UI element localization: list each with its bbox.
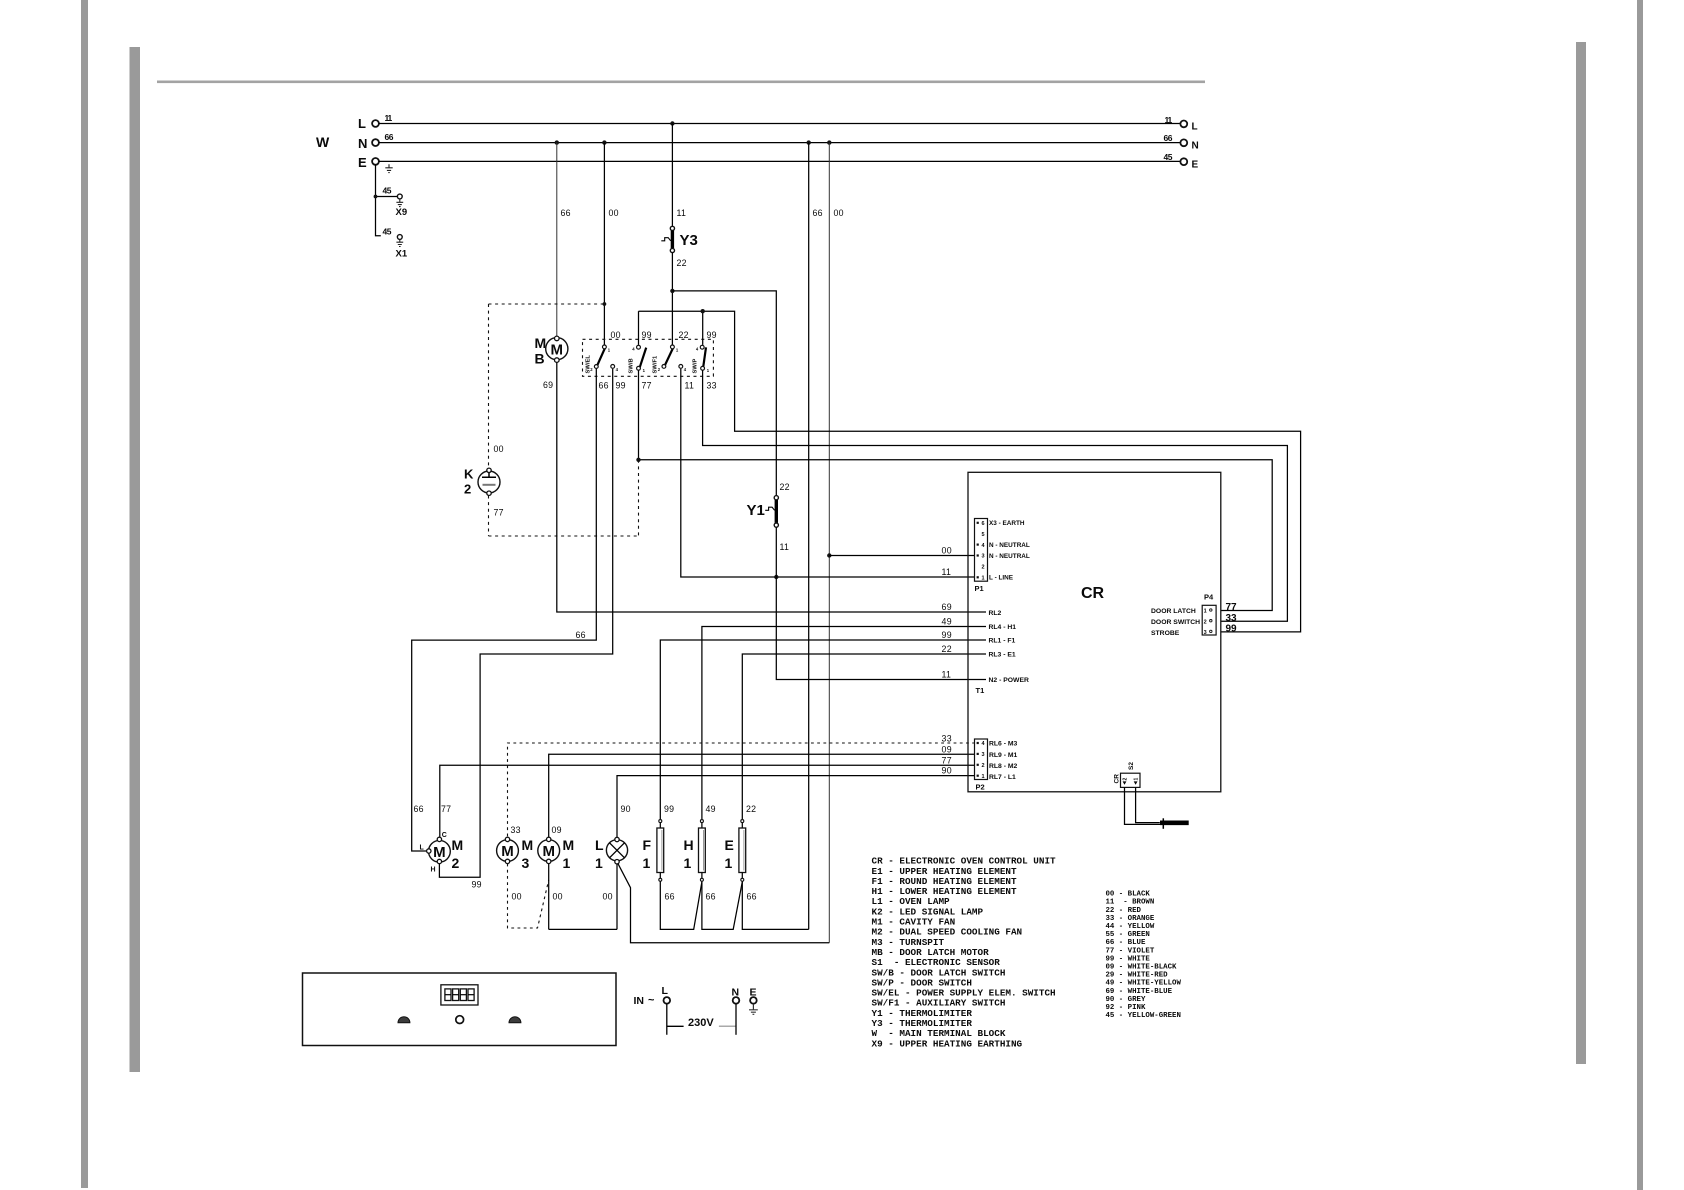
svg-text:M: M bbox=[433, 844, 446, 861]
svg-text:45 - YELLOW-GREEN: 45 - YELLOW-GREEN bbox=[1106, 1012, 1181, 1020]
svg-text:2: 2 bbox=[452, 855, 460, 871]
svg-text:H: H bbox=[431, 867, 436, 874]
svg-text:1: 1 bbox=[725, 855, 733, 871]
svg-text:49 - WHITE-YELLOW: 49 - WHITE-YELLOW bbox=[1106, 980, 1182, 988]
svg-text:69: 69 bbox=[942, 602, 952, 612]
right terminal N circle bbox=[1180, 139, 1187, 146]
svg-text:00: 00 bbox=[603, 892, 613, 902]
svg-text:M: M bbox=[452, 837, 464, 853]
mains gray link bbox=[719, 1025, 736, 1027]
svg-text:N: N bbox=[1192, 141, 1199, 152]
thermolimiter Y1 bbox=[774, 496, 778, 500]
thermolimiter Y3 bbox=[670, 226, 674, 230]
right terminal E circle bbox=[1180, 158, 1187, 165]
control panel box bbox=[303, 973, 617, 1046]
svg-text:00: 00 bbox=[609, 208, 619, 218]
svg-text:P2: P2 bbox=[976, 783, 985, 792]
svg-text:L: L bbox=[420, 845, 425, 852]
svg-text:3: 3 bbox=[981, 752, 984, 758]
junction N to SW/EL wire bbox=[602, 140, 606, 144]
svg-text:X9: X9 bbox=[396, 207, 408, 218]
svg-text:3: 3 bbox=[981, 554, 984, 560]
mains ground symbol bbox=[749, 1004, 758, 1015]
svg-text:11: 11 bbox=[780, 542, 790, 552]
svg-text:L: L bbox=[358, 116, 366, 131]
wire 66 from N to heating elements return bus bbox=[808, 143, 810, 930]
svg-text:M: M bbox=[551, 341, 564, 358]
svg-text:99 - WHITE: 99 - WHITE bbox=[1106, 955, 1151, 963]
svg-text:1: 1 bbox=[981, 576, 984, 582]
svg-text:CR: CR bbox=[1114, 774, 1121, 784]
door latch motor MB bbox=[546, 336, 568, 362]
wire E earthing drop to X9 and X1 bbox=[376, 165, 398, 236]
svg-text:49: 49 bbox=[706, 804, 716, 814]
svg-text:66: 66 bbox=[1164, 133, 1173, 143]
svg-text:66: 66 bbox=[747, 892, 757, 902]
svg-text:E: E bbox=[725, 837, 734, 853]
cooling fan M2 bbox=[427, 837, 451, 864]
svg-text:66: 66 bbox=[706, 892, 716, 902]
svg-text:33: 33 bbox=[942, 734, 952, 744]
svg-text:3: 3 bbox=[522, 855, 530, 871]
switch SW/F1 bbox=[662, 345, 683, 368]
svg-text:K: K bbox=[464, 467, 474, 482]
svg-text:45: 45 bbox=[383, 227, 392, 237]
display digits 8888 bbox=[445, 989, 451, 1001]
svg-text:SW/F1: SW/F1 bbox=[653, 355, 659, 373]
svg-text:230V: 230V bbox=[688, 1017, 714, 1029]
wire bus N bbox=[379, 142, 1180, 144]
svg-text:77: 77 bbox=[494, 508, 504, 518]
svg-text:IN: IN bbox=[634, 995, 645, 1007]
legend colour codes bbox=[1106, 891, 1182, 1021]
svg-text:99: 99 bbox=[664, 804, 674, 814]
svg-text:09 - WHITE-BLACK: 09 - WHITE-BLACK bbox=[1106, 964, 1178, 972]
svg-text:99: 99 bbox=[616, 381, 626, 391]
junction L to Y3 wire bbox=[670, 121, 674, 125]
terminal W pin L circle bbox=[372, 120, 379, 127]
svg-text:92 - PINK: 92 - PINK bbox=[1106, 1004, 1146, 1012]
svg-text:66: 66 bbox=[385, 132, 394, 142]
round heating element F1 bbox=[657, 820, 664, 882]
wires from S2 to sensor S1 bbox=[1125, 787, 1161, 824]
svg-text:44 - YELLOW: 44 - YELLOW bbox=[1106, 923, 1155, 931]
svg-text:11: 11 bbox=[685, 381, 695, 391]
switch SW/EL bbox=[594, 345, 614, 368]
wire 09 from CR P2 RL9 to cavity fan M1 bbox=[549, 754, 975, 837]
wire 99 from SW/EL to cooling fan M2 terminal H bbox=[439, 369, 612, 878]
svg-text:49: 49 bbox=[942, 617, 952, 627]
svg-text:1: 1 bbox=[1134, 778, 1140, 781]
wire 99 above SW/P bbox=[702, 311, 704, 345]
dashed wire 00 below turnspit M3 bbox=[508, 864, 549, 928]
svg-text:11 - BROWN: 11 - BROWN bbox=[1106, 899, 1155, 907]
svg-text:77: 77 bbox=[1226, 602, 1238, 613]
wire 77 from CR P2 RL8 to cooling fan M2 terminal C bbox=[440, 765, 975, 837]
svg-text:P1: P1 bbox=[975, 584, 984, 593]
svg-text:B: B bbox=[535, 351, 545, 367]
svg-text:T1: T1 bbox=[976, 686, 985, 695]
connector S2 of CR bbox=[1121, 773, 1141, 787]
svg-text:Y3: Y3 bbox=[680, 232, 698, 249]
svg-text:11: 11 bbox=[677, 208, 687, 218]
svg-text:00: 00 bbox=[611, 330, 621, 340]
mains terminal N circle bbox=[733, 997, 740, 1004]
svg-text:W: W bbox=[316, 134, 330, 150]
svg-text:1: 1 bbox=[981, 774, 984, 780]
right terminal L circle bbox=[1180, 121, 1187, 128]
wire 66 below E1 to feeder bbox=[742, 882, 808, 930]
svg-text:L: L bbox=[662, 985, 669, 997]
svg-text:RL9 - M1: RL9 - M1 bbox=[989, 752, 1018, 759]
display window bbox=[441, 985, 478, 1005]
svg-text:RL1 - F1: RL1 - F1 bbox=[989, 638, 1016, 645]
svg-text:66: 66 bbox=[665, 892, 675, 902]
svg-text:33: 33 bbox=[511, 825, 521, 835]
svg-text:77: 77 bbox=[441, 804, 451, 814]
wire 00 from N to switch SW/EL bbox=[603, 143, 605, 345]
mains terminal L circle bbox=[664, 997, 671, 1004]
svg-text:99: 99 bbox=[472, 880, 482, 890]
junction 22 branch to Y1 bbox=[670, 289, 674, 293]
svg-text:22: 22 bbox=[677, 258, 687, 268]
svg-text:M: M bbox=[501, 843, 514, 860]
electronic sensor S1 probe bbox=[1160, 820, 1189, 825]
top gray rule bbox=[157, 81, 1205, 84]
panel center lamp bbox=[456, 1016, 464, 1024]
svg-text:2: 2 bbox=[1123, 778, 1129, 781]
svg-text:66 - BLUE: 66 - BLUE bbox=[1106, 939, 1146, 947]
svg-text:N - NEUTRAL: N - NEUTRAL bbox=[989, 553, 1030, 560]
wire 99 strobe net to CR P4 pin3 bbox=[639, 311, 1301, 632]
svg-text:X9 - UPPER HEATING EARTHING: X9 - UPPER HEATING EARTHING bbox=[872, 1038, 1023, 1049]
svg-text:33: 33 bbox=[1226, 613, 1238, 624]
svg-text:SW/P: SW/P bbox=[693, 359, 699, 374]
junction N to wire 00b bbox=[827, 140, 831, 144]
svg-text:09: 09 bbox=[552, 825, 562, 835]
svg-text:2: 2 bbox=[1204, 619, 1207, 625]
svg-text:33: 33 bbox=[707, 381, 717, 391]
svg-text:P4: P4 bbox=[1204, 593, 1214, 602]
svg-text:22 - RED: 22 - RED bbox=[1106, 907, 1142, 915]
turnspit M3 bbox=[497, 837, 519, 863]
wire 11 from SW/F1 to CR P1 pin1 line bbox=[681, 369, 975, 577]
right outer gray bar bbox=[1637, 0, 1643, 1190]
svg-text:22: 22 bbox=[780, 482, 790, 492]
right inner gray bar bbox=[1576, 42, 1586, 1064]
svg-text:22: 22 bbox=[746, 804, 756, 814]
svg-text:M: M bbox=[535, 335, 547, 351]
svg-text:77: 77 bbox=[642, 381, 652, 391]
svg-text:6: 6 bbox=[981, 521, 984, 527]
svg-text:00: 00 bbox=[494, 444, 504, 454]
svg-text:29 - WHITE-RED: 29 - WHITE-RED bbox=[1106, 972, 1169, 980]
svg-text:00: 00 bbox=[553, 892, 563, 902]
svg-text:F: F bbox=[643, 837, 652, 853]
svg-text:66: 66 bbox=[561, 208, 571, 218]
wire bus L bbox=[379, 123, 1180, 125]
svg-text:1: 1 bbox=[1204, 609, 1207, 615]
svg-text:00 - BLACK: 00 - BLACK bbox=[1106, 891, 1151, 899]
svg-text:90: 90 bbox=[621, 804, 631, 814]
svg-text:Y1: Y1 bbox=[747, 502, 765, 519]
cavity fan M1 bbox=[538, 837, 560, 863]
svg-text:L - LINE: L - LINE bbox=[989, 575, 1014, 582]
wire 69 from MB to CR RL2 bbox=[557, 363, 986, 613]
svg-text:M: M bbox=[542, 843, 555, 860]
svg-text:69 - WHITE-BLUE: 69 - WHITE-BLUE bbox=[1106, 988, 1173, 996]
svg-text:RL6 - M3: RL6 - M3 bbox=[989, 741, 1018, 748]
junction 77 at dashed box corner bbox=[636, 458, 640, 462]
svg-text:66: 66 bbox=[813, 208, 823, 218]
wire 22 branch to thermolimiter Y1 bbox=[672, 291, 776, 496]
ground symbol at W terminal E bbox=[385, 164, 392, 172]
svg-text:22: 22 bbox=[942, 644, 952, 654]
svg-text:99: 99 bbox=[707, 330, 717, 340]
svg-text:DOOR SWITCH: DOOR SWITCH bbox=[1151, 619, 1200, 626]
svg-text:E: E bbox=[1192, 160, 1199, 171]
svg-text:CR: CR bbox=[1081, 585, 1105, 602]
svg-text:C: C bbox=[442, 832, 447, 839]
svg-text:N2 - POWER: N2 - POWER bbox=[989, 677, 1029, 684]
terminal W pin E circle bbox=[372, 158, 379, 165]
svg-text:N: N bbox=[358, 136, 367, 151]
wire 66 below H1 to E1 bbox=[702, 882, 742, 930]
wire 22 from CR RL3 to upper heating element E1 bbox=[742, 654, 986, 819]
svg-text:1: 1 bbox=[563, 855, 571, 871]
connector P2 of CR bbox=[975, 739, 988, 780]
svg-text:66: 66 bbox=[599, 381, 609, 391]
svg-text:5: 5 bbox=[981, 532, 984, 538]
junction 00 branch to P1 bbox=[827, 553, 831, 557]
junction 11 net with Y1 bbox=[774, 575, 778, 579]
connector P1 of CR bbox=[975, 519, 988, 582]
wire 49 from CR RL4 to lower heating element H1 bbox=[702, 627, 986, 820]
wire 99 from CR RL1 to round heating element F1 bbox=[660, 640, 986, 819]
svg-text:L: L bbox=[595, 837, 604, 853]
wire 77 from SW/B to CR P4 pin1 bbox=[639, 371, 1273, 611]
terminal X9 circle bbox=[397, 194, 402, 199]
wire 66 from SW/EL to cooling fan M2 terminal L bbox=[412, 369, 597, 851]
wire 00 below lamp L1 bbox=[616, 864, 618, 930]
wire 00 branch into CR P1 pin3 bbox=[829, 555, 975, 557]
svg-text:00: 00 bbox=[512, 892, 522, 902]
wire 99 above SW/B bbox=[638, 311, 640, 345]
wire 11 from Y1 to CR N2 power bbox=[776, 527, 986, 679]
mains L wire bbox=[667, 1004, 684, 1035]
ground symbol X9 bbox=[396, 199, 403, 207]
svg-text:90: 90 bbox=[942, 766, 952, 776]
svg-text:00: 00 bbox=[834, 208, 844, 218]
junction of MB box edge on wire 00 bbox=[603, 302, 607, 306]
junction N to MB wire bbox=[555, 140, 559, 144]
mains terminal E circle bbox=[750, 997, 757, 1004]
svg-text:2: 2 bbox=[464, 482, 471, 497]
wire 66 from N to door latch motor MB bbox=[556, 143, 558, 337]
svg-text:STROBE: STROBE bbox=[1151, 630, 1180, 637]
ground symbol X1 bbox=[396, 239, 403, 246]
svg-text:X3 - EARTH: X3 - EARTH bbox=[989, 520, 1025, 527]
electronic oven control unit CR box bbox=[968, 472, 1221, 792]
legend component list bbox=[872, 856, 1057, 1050]
svg-text:99: 99 bbox=[642, 330, 652, 340]
junction 99 net at SW/P bbox=[701, 309, 705, 313]
left outer gray bar bbox=[81, 0, 88, 1188]
svg-text:1: 1 bbox=[595, 855, 603, 871]
left inner gray bar bbox=[130, 47, 141, 1072]
LED signal lamp K2 bbox=[478, 468, 500, 495]
svg-text:L: L bbox=[1192, 122, 1198, 133]
switch SW/P bbox=[700, 345, 706, 370]
svg-text:H: H bbox=[684, 837, 694, 853]
svg-text:1: 1 bbox=[643, 855, 651, 871]
svg-text:77: 77 bbox=[942, 756, 952, 766]
svg-text:22: 22 bbox=[679, 330, 689, 340]
junction N to wire 66b bbox=[807, 140, 811, 144]
svg-text:3: 3 bbox=[1204, 630, 1207, 636]
svg-text:77 - VIOLET: 77 - VIOLET bbox=[1106, 947, 1155, 955]
svg-text:RL3 - E1: RL3 - E1 bbox=[989, 652, 1016, 659]
svg-text:66: 66 bbox=[414, 804, 424, 814]
terminal X1 circle bbox=[397, 235, 402, 240]
wire 00 bus from M1 to L1 bbox=[549, 928, 617, 930]
svg-text:M: M bbox=[563, 837, 575, 853]
svg-text:RL2: RL2 bbox=[989, 610, 1002, 617]
svg-text:00: 00 bbox=[942, 546, 952, 556]
wire 00 below cavity fan M1 bbox=[548, 864, 550, 930]
svg-text:E: E bbox=[358, 155, 367, 170]
wire 11 from L to thermolimiter Y3 bbox=[671, 124, 673, 227]
svg-text:45: 45 bbox=[1164, 152, 1173, 162]
svg-text:66: 66 bbox=[576, 630, 586, 640]
svg-text:SW/EL: SW/EL bbox=[586, 355, 592, 374]
switch SW/B bbox=[637, 345, 647, 370]
svg-text:33 - ORANGE: 33 - ORANGE bbox=[1106, 915, 1155, 923]
connector P4 of CR bbox=[1202, 605, 1216, 635]
svg-text:11: 11 bbox=[942, 670, 952, 680]
dashed enclosure switch block bbox=[583, 339, 714, 376]
panel right button bbox=[509, 1017, 521, 1023]
svg-text:SW/B: SW/B bbox=[629, 358, 635, 373]
wire 66 below F1 to H1 bbox=[660, 882, 702, 930]
mains N wire bbox=[735, 1004, 737, 1035]
dashed enclosure MB K2 box bbox=[489, 304, 639, 536]
upper heating element E1 bbox=[739, 820, 746, 882]
svg-text:55 - GREEN: 55 - GREEN bbox=[1106, 931, 1150, 939]
svg-text:99: 99 bbox=[1226, 624, 1238, 635]
wire 22 from Y3 to switch SW/F1 bbox=[671, 253, 673, 345]
svg-text:M: M bbox=[522, 837, 534, 853]
svg-text:45: 45 bbox=[383, 186, 392, 196]
wire 90 from CR P2 RL7 to oven lamp L1 bbox=[617, 776, 975, 838]
svg-text:S2: S2 bbox=[1128, 762, 1135, 770]
wire bus E bbox=[379, 160, 1180, 162]
terminal W pin N circle bbox=[372, 139, 379, 146]
oven lamp L1 bbox=[606, 837, 627, 864]
svg-text:N - NEUTRAL: N - NEUTRAL bbox=[989, 542, 1030, 549]
svg-text:DOOR LATCH: DOOR LATCH bbox=[1151, 608, 1196, 615]
svg-text:11: 11 bbox=[942, 567, 952, 577]
junction on earthing drop bbox=[374, 195, 378, 199]
svg-text:69: 69 bbox=[543, 380, 553, 390]
svg-text:RL8 - M2: RL8 - M2 bbox=[989, 763, 1018, 770]
svg-text:09: 09 bbox=[942, 745, 952, 755]
svg-text:1: 1 bbox=[684, 855, 692, 871]
wire 00 second path from L1 to feeder bbox=[618, 863, 830, 942]
svg-text:2: 2 bbox=[981, 763, 984, 769]
panel left button bbox=[398, 1017, 410, 1023]
svg-text:90 - GREY: 90 - GREY bbox=[1106, 996, 1146, 1004]
lower heating element H1 bbox=[699, 820, 706, 882]
svg-text:~: ~ bbox=[648, 995, 655, 1007]
wire 00 from N to CR P1 and lamp return bus bbox=[828, 143, 830, 943]
svg-text:RL4 - H1: RL4 - H1 bbox=[989, 624, 1017, 631]
svg-text:RL7 - L1: RL7 - L1 bbox=[989, 774, 1016, 781]
svg-text:2: 2 bbox=[981, 565, 984, 571]
wire 33 from SW/P to CR P4 pin2 bbox=[703, 371, 1288, 622]
dashed wire 33 from CR P2 RL6 to turnspit M3 bbox=[508, 743, 976, 837]
svg-text:99: 99 bbox=[942, 630, 952, 640]
svg-text:X1: X1 bbox=[396, 249, 408, 260]
